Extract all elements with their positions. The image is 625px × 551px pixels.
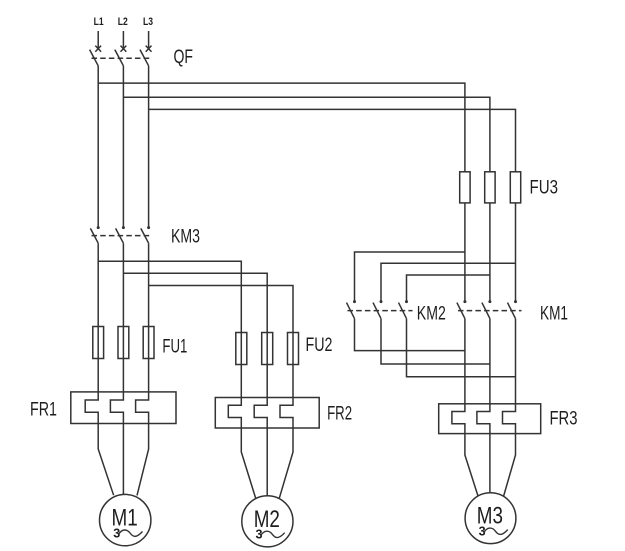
label FU1 [162, 337, 187, 358]
fuse FU1 element 1 [93, 327, 104, 359]
label FU2 [306, 335, 333, 356]
label FR2 [327, 404, 352, 425]
wire FU3 phase3 to KM1 pole3 [515, 203, 517, 301]
svg-text:KM3: KM3 [171, 227, 200, 248]
motor M1 [100, 494, 151, 545]
supply arrow L1 [95, 31, 101, 52]
fuse FU2 element 1 [236, 333, 247, 365]
contactor KM3 linkage dashed [92, 235, 151, 237]
breaker QF pole 3 blade [140, 50, 149, 66]
wire KM2 pole2 output to phase2 bus [381, 319, 490, 364]
svg-text:FU2: FU2 [306, 335, 333, 356]
wire branch phase1 to right column [98, 83, 465, 172]
contactor KM2 pole 2 [373, 300, 383, 319]
svg-text:L1: L1 [94, 16, 104, 28]
wire FR1 to motor M1 center [122, 424, 124, 497]
contactor KM2 pole 3 [399, 300, 409, 319]
wire KM3 pole2 to FU1 [122, 243, 124, 392]
contactor KM3 pole 3 [141, 226, 150, 243]
wire branch phase1 to FU2 [98, 261, 241, 397]
thermal relay FR3 heater 1 [452, 404, 465, 434]
thermal relay FR2 box [215, 398, 319, 429]
breaker QF pole 1 blade [90, 50, 99, 66]
thermal relay FR3 heater 2 [477, 404, 490, 434]
wire FR3 to motor M3 left [465, 434, 478, 496]
label FU3 [530, 178, 559, 199]
supply arrow L3 [146, 31, 152, 52]
contactor KM1 linkage dashed [458, 310, 522, 312]
svg-text:FR3: FR3 [550, 409, 578, 430]
wire FU3 phase2 to KM1 pole2 [489, 203, 491, 301]
wire QF pole3 to KM3 pole3 [148, 66, 150, 227]
wire FR2 to motor M2 right [279, 428, 293, 498]
wire FR3 to motor M3 right [504, 434, 516, 497]
breaker QF linkage dashed [92, 57, 151, 59]
svg-text:KM1: KM1 [540, 304, 568, 325]
label KM1 [540, 304, 568, 325]
thermal relay FR2 heater 3 [280, 398, 293, 429]
wire FU3 phase1 to KM1 pole1 [464, 203, 466, 301]
wire FR3 to motor M3 center [489, 434, 491, 494]
wire tap phase3 to KM2 pole2 [381, 263, 516, 300]
wire branch phase2 to FU2 [123, 273, 267, 397]
thermal relay FR1 box [71, 392, 176, 424]
wire branch phase3 to FU2 [149, 286, 293, 398]
wire KM1 pole1 to FR3 [464, 319, 466, 404]
svg-text:FU1: FU1 [162, 337, 187, 358]
svg-text:KM2: KM2 [417, 304, 446, 325]
wire KM3 pole3 to FU1 [148, 243, 150, 392]
breaker QF pole 2 blade [115, 50, 124, 66]
thermal relay FR1 heater 2 [110, 392, 123, 424]
wire FR1 to motor M1 right [137, 424, 149, 496]
label FR1 [30, 400, 57, 421]
thermal relay FR1 heater 3 [136, 392, 149, 424]
contactor KM2 pole 1 [347, 300, 357, 319]
fuse FU2 element 3 [288, 333, 299, 365]
fuse FU1 element 3 [143, 327, 154, 359]
wire KM1 pole2 to FR3 [489, 319, 491, 404]
thermal relay FR3 heater 3 [503, 404, 516, 434]
label KM3 [171, 227, 200, 248]
node L3 [143, 16, 153, 28]
node L2 [118, 16, 128, 28]
wire FR2 to motor M2 center [266, 428, 268, 497]
contactor KM2 linkage dashed [348, 310, 413, 312]
motor M3 [465, 493, 516, 544]
fuse FU3 element 1 [460, 172, 470, 203]
wire KM1 pole3 to FR3 [515, 319, 517, 404]
supply arrow L2 [121, 31, 127, 52]
svg-text:QF: QF [174, 47, 194, 68]
contactor KM1 pole 1 [457, 300, 467, 319]
fuse FU3 element 3 [510, 172, 520, 203]
wire tap phase2 to KM2 pole3 [407, 275, 490, 301]
wire FR1 to motor M1 left [98, 424, 113, 496]
thermal relay FR2 heater 1 [228, 398, 241, 429]
label KM2 [417, 304, 446, 325]
wire tap phase1 to KM2 pole1 [355, 252, 465, 301]
wire FR2 to motor M2 left [241, 428, 255, 498]
wire branch phase2 to right column [123, 97, 490, 172]
wire KM3 pole1 to FU1 [97, 243, 99, 392]
label FR3 [550, 409, 578, 430]
label QF [174, 47, 194, 68]
wire branch phase3 to right column [149, 109, 516, 171]
fuse FU3 element 2 [485, 172, 495, 203]
wire QF pole2 to KM3 pole2 [122, 66, 124, 227]
contactor KM3 pole 1 [90, 226, 99, 243]
wire QF pole1 to KM3 pole1 [97, 66, 99, 227]
contactor KM3 pole 2 [116, 226, 125, 243]
svg-text:FR1: FR1 [30, 400, 57, 421]
thermal relay FR2 heater 2 [254, 398, 267, 429]
contactor KM1 pole 2 [482, 300, 492, 319]
svg-text:L3: L3 [143, 16, 153, 28]
motor M2 [242, 496, 293, 547]
svg-text:FU3: FU3 [530, 178, 559, 199]
fuse FU2 element 2 [262, 333, 273, 365]
thermal relay FR1 heater 1 [85, 392, 98, 424]
wire KM2 pole1 output to phase1 bus [355, 319, 465, 351]
wire KM2 pole3 output to phase3 bus [407, 319, 516, 377]
contactor KM1 pole 3 [508, 300, 518, 319]
thermal relay FR3 box [439, 404, 541, 434]
node L1 [94, 16, 104, 28]
svg-text:L2: L2 [118, 16, 128, 28]
fuse FU1 element 2 [118, 327, 129, 359]
svg-text:FR2: FR2 [327, 404, 352, 425]
